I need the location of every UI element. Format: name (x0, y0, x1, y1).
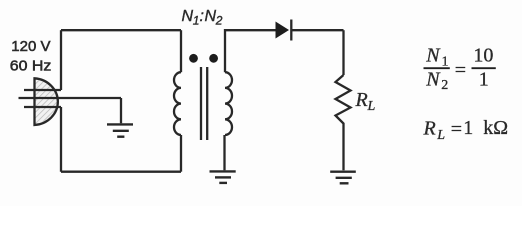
svg-text:120 V: 120 V (11, 38, 50, 55)
svg-text:R: R (355, 89, 368, 111)
svg-text:2: 2 (215, 14, 223, 28)
svg-text:N: N (425, 45, 441, 67)
svg-text:L: L (436, 128, 445, 143)
svg-text:1: 1 (479, 69, 489, 91)
svg-text:L: L (367, 99, 376, 114)
svg-text:=: = (455, 59, 466, 81)
svg-text:R: R (423, 118, 436, 140)
svg-text:1: 1 (442, 55, 449, 70)
svg-text:N: N (205, 8, 217, 25)
svg-text:=: = (451, 118, 462, 140)
svg-text:2: 2 (441, 78, 448, 93)
svg-text:kΩ: kΩ (483, 117, 508, 139)
svg-text:60 Hz: 60 Hz (10, 58, 52, 75)
svg-text:1: 1 (463, 117, 473, 139)
svg-text:N: N (182, 8, 194, 25)
svg-text::: : (200, 8, 204, 25)
svg-text:1: 1 (193, 14, 200, 28)
svg-text:N: N (425, 68, 441, 90)
svg-text:10: 10 (473, 45, 493, 67)
